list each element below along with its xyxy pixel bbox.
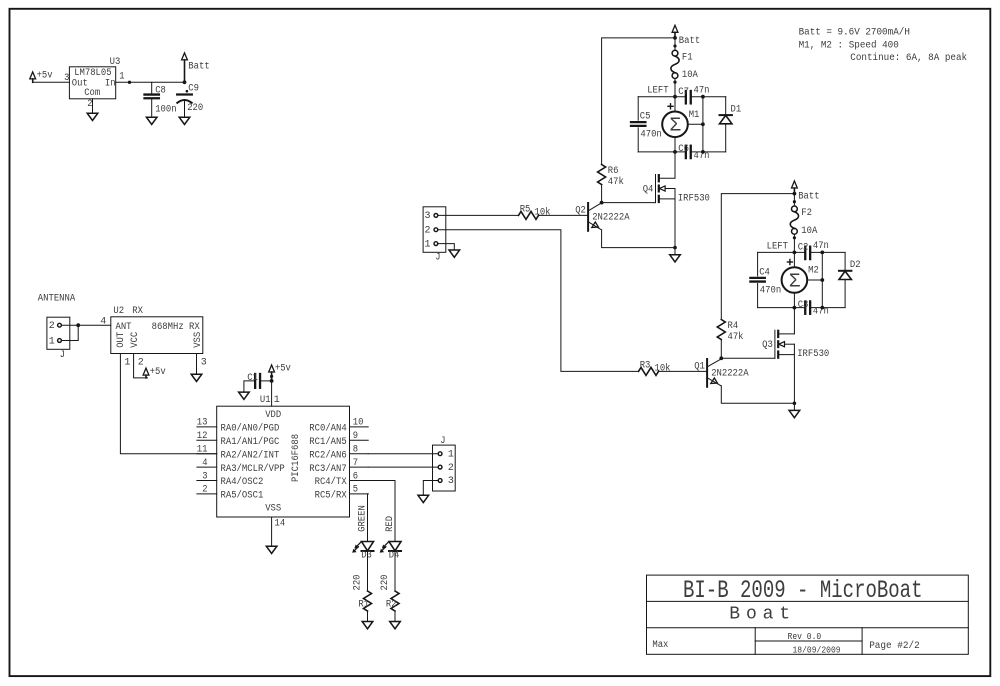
transistor Q4 IRF530 [655,175,657,203]
fuse F2 [792,206,798,212]
U1 right pin stub 5 [350,493,369,495]
capacitor C9 (electrolytic) [177,93,192,95]
junction Q2 collector node [600,201,604,205]
svg-text:Page #2/2: Page #2/2 [869,640,920,652]
svg-text:U1: U1 [260,395,271,406]
svg-text:868MHz RX: 868MHz RX [152,322,200,333]
svg-text:6: 6 [353,471,358,482]
svg-text:RC0/AN4: RC0/AN4 [309,423,346,435]
svg-text:R2: R2 [386,599,397,610]
svg-text:RC1/AN5: RC1/AN5 [309,436,346,448]
wire input J pin3 to R5 [438,214,519,216]
svg-text:Batt = 9.6V 2700mA/H: Batt = 9.6V 2700mA/H [799,27,910,39]
title block outer frame [647,575,969,654]
svg-text:1: 1 [424,239,430,250]
wire motor M2 bottom to drain [793,293,795,334]
svg-text:1: 1 [448,449,454,460]
antenna connector J box [47,317,70,349]
svg-text:D1: D1 [731,105,742,116]
wire U2 VCC to +5v [134,354,148,378]
wire C8 to ground [151,98,153,117]
svg-text:Σ: Σ [669,115,680,137]
U1 left pin stub 11 [197,453,217,455]
svg-text:ANTENNA: ANTENNA [38,293,75,304]
wire motor 1 top right [691,96,726,98]
U1 right pin stub 10 [350,426,369,428]
svg-text:+5v: +5v [275,364,291,375]
junction center tap M2 [820,278,824,282]
capacitor C7 [685,91,687,103]
junction C6 right [701,150,705,154]
title block vertical divider left [754,628,756,655]
svg-text:RA2/AN2/INT: RA2/AN2/INT [221,449,280,461]
capacitor C5 [631,121,645,123]
wire R1 to ground [367,611,369,622]
svg-text:RA3/MCLR/VPP: RA3/MCLR/VPP [221,463,285,475]
transistor Q2 2N2222A [587,203,589,231]
ground below Q4 [670,255,681,262]
junction Batt / R6 feed [673,36,677,40]
wire R3 to Q1 base [659,370,708,372]
svg-text:220: 220 [187,103,203,114]
svg-text:2: 2 [448,463,454,474]
ground below R1 [362,622,373,629]
wire U2 VSS to ground [196,354,198,375]
svg-text:BI-B 2009 - MicroBoat: BI-B 2009 - MicroBoat [683,576,923,605]
svg-text:ANT: ANT [116,322,132,333]
U1 left pin stub 2 [197,493,217,495]
wire C1 right to +5v rail [260,380,272,382]
title block divider 1 [647,600,969,602]
svg-text:220: 220 [380,575,391,591]
svg-text:J: J [60,350,65,361]
svg-text:Q2: Q2 [575,206,586,217]
svg-text:10: 10 [353,418,364,429]
ground below Q3 [789,410,800,417]
svg-text:RX: RX [132,306,143,317]
wire F1 to motor node [674,79,676,97]
svg-text:Continue: 6A, 8A peak: Continue: 6A, 8A peak [850,52,967,64]
svg-text:Batt: Batt [798,192,819,203]
ground below R2 [390,622,401,629]
svg-text:OUT: OUT [116,332,127,348]
title block vertical divider right [861,628,863,655]
transistor Q3 IRF530 [774,330,776,358]
svg-text:9: 9 [353,431,358,442]
wire U1 VSS to ground [271,517,273,546]
svg-text:GREEN: GREEN [358,505,369,532]
wire motor 2 bottom right [811,307,846,309]
svg-text:2N2222A: 2N2222A [592,213,629,224]
wire fuse node to motor M2 [793,252,795,267]
ground below C1 [239,392,250,399]
svg-text:10k: 10k [655,362,671,374]
junction at U3 In pin [128,81,131,84]
ground below U1 VSS [266,546,277,553]
svg-text:RA0/AN0/PGD: RA0/AN0/PGD [221,423,280,435]
svg-text:100n: 100n [155,104,176,115]
receiver U2 box [111,317,203,354]
svg-text:3: 3 [448,476,454,487]
diode D1 [720,114,732,116]
svg-text:RED: RED [385,516,396,532]
svg-text:2: 2 [87,99,92,110]
wire motor 2 top right [811,251,846,253]
svg-text:2N2222A: 2N2222A [711,369,748,380]
wire red LED to R2 [394,551,396,591]
svg-text:VSS: VSS [193,332,204,348]
wire Q1 collector node to Q3 gate [721,357,775,359]
wire U3 In to battery node [116,81,185,83]
pin dot above F2 [793,200,796,203]
svg-text:RC3/AN7: RC3/AN7 [309,463,346,475]
wire green LED to R1 [367,551,369,591]
U1 right pin stub 7 [350,466,369,468]
ground below output J [418,495,429,502]
wire R4 to Q1 collector [720,340,722,359]
svg-text:IRF530: IRF530 [797,349,829,360]
svg-text:RC4/TX: RC4/TX [315,476,347,488]
svg-text:VSS: VSS [265,503,281,514]
svg-text:Q1: Q1 [694,362,705,373]
junction Q1 emitter / Q3 source [793,402,797,406]
wire motor M2 to center tap [807,279,822,281]
capacitor C3 [804,301,806,313]
junction motor 2 bottom [793,306,797,310]
wire motor 2 left side upper [757,252,759,276]
wire input J pin1 to ground [438,244,455,250]
svg-text:IRF530: IRF530 [678,193,710,204]
svg-text:U2: U2 [113,306,124,317]
svg-text:3: 3 [201,357,207,368]
junction motor 1 bottom [673,150,677,154]
svg-text:Batt: Batt [679,36,700,47]
wire R2 to ground [394,611,396,622]
wire battery node down to C8 [151,82,153,94]
wire output J pin3 to ground [423,481,438,496]
svg-text:Q3: Q3 [762,340,773,351]
U1 left pin stub 4 [197,466,217,468]
svg-text:J: J [435,253,440,264]
svg-text:1: 1 [124,357,130,368]
resistor R2 [391,591,399,611]
motor M1 plus mark [668,105,673,107]
wire antenna pin2 to U2 ANT [61,324,110,326]
svg-text:M1, M2 : Speed 400: M1, M2 : Speed 400 [799,39,899,51]
U1 left pin stub 3 [197,480,217,482]
junction at battery node [183,80,187,84]
svg-text:RA5/OSC1: RA5/OSC1 [221,490,264,502]
pin dot below F1 [673,81,676,84]
ground below C8 [146,117,157,124]
wire Batt to fuse F2 [793,194,795,206]
svg-text:RA1/AN1/PGC: RA1/AN1/PGC [221,436,280,448]
junction Batt / R4 feed [793,192,797,196]
U1 right pin stub 8 [350,453,369,455]
ground below input J pin1 [449,250,460,257]
svg-text:C1: C1 [247,373,258,384]
capacitor C8 [145,93,159,95]
svg-text:RC5/RX: RC5/RX [315,490,347,502]
wire motor 2 bottom left [758,307,805,309]
power symbol Batt (motor 1) [672,25,678,32]
svg-text:2: 2 [424,225,430,236]
svg-text:1: 1 [119,71,124,82]
svg-text:VDD: VDD [265,410,281,421]
svg-text:2: 2 [138,357,144,368]
svg-text:C5: C5 [640,112,651,123]
antenna J pin 2 circle [58,323,62,327]
svg-text:5: 5 [353,485,358,496]
ground below C9 [179,117,190,124]
wire D1 cathode [725,97,727,115]
power symbol +5v (U2 VCC) [143,368,149,375]
input J pin 3 circle [434,214,438,218]
wire Q4 source to ground rail [674,189,676,255]
resistor R1 [364,591,372,611]
wire fuse node to motor [674,97,676,112]
wire Batt to fuse [674,38,676,50]
junction motor 1 top [673,95,677,99]
wire D2 cathode [844,252,846,270]
capacitor C1 [254,374,256,388]
wire +5v to U3 Out [33,81,70,83]
output J pin 1 circle [438,452,442,456]
capacitor C4 [750,277,764,279]
junction Q2 emitter / Q4 source [673,246,677,250]
wire R6 to Q2 collector [601,185,603,203]
resistor R4 [717,320,725,340]
svg-text:RA4/OSC2: RA4/OSC2 [221,476,264,488]
wire input J pin2 down to R3 [438,230,639,372]
wire motor M1 bottom to drain [674,137,676,178]
svg-text:F1: F1 [682,53,693,64]
svg-text:4: 4 [202,458,207,469]
svg-text:C3: C3 [798,300,809,311]
wire C9 to ground [184,100,186,117]
svg-text:PIC16F688: PIC16F688 [291,434,302,482]
junction Q1 collector node [719,356,723,360]
wire U3 Com to ground [92,99,94,113]
junction center tap M1 [701,122,705,126]
svg-text:10k: 10k [535,206,551,218]
svg-text:1: 1 [49,336,55,347]
resistor R3 [639,367,659,375]
svg-text:1: 1 [274,395,280,406]
svg-text:U3: U3 [110,57,121,68]
pin dot on VDD rail [270,375,273,378]
junction C7 right [701,95,705,99]
svg-text:Boat: Boat [729,604,790,624]
antenna J pin 1 circle [58,339,62,343]
svg-text:C6: C6 [678,144,689,155]
svg-text:14: 14 [275,518,286,529]
svg-text:Q4: Q4 [643,185,654,196]
svg-text:Max: Max [652,640,668,651]
svg-text:+5v: +5v [150,367,166,378]
center tap vertical M1 [702,97,704,152]
voltage regulator U3 box [69,67,115,99]
svg-text:D4: D4 [389,551,400,562]
svg-text:M2: M2 [808,266,819,277]
junction C2 right [820,251,824,255]
svg-text:Batt: Batt [188,61,209,72]
output connector J box [433,445,456,491]
wire C1 left to ground [244,381,255,392]
ground below U3 [87,113,98,120]
wire RC5 to green LED [367,494,370,541]
svg-text:LEFT: LEFT [647,86,668,97]
wire motor 1 left side lower [637,128,639,152]
LED D4 (red) [389,542,401,551]
output J pin 3 circle [438,479,442,483]
wire RC2 to connector pin 1 [368,453,438,455]
resistor R5 [519,211,539,219]
svg-text:470n: 470n [640,130,661,141]
svg-text:47k: 47k [728,331,744,343]
svg-text:F2: F2 [801,208,812,219]
motor M2 plus mark [787,261,792,263]
output J pin 2 circle [438,465,442,469]
wire Q2 emitter to ground rail [602,230,675,248]
U1 right pin stub 6 [350,480,369,482]
U1 left pin stub 12 [197,439,217,441]
pin dot below F2 [793,236,796,239]
svg-text:4: 4 [100,316,106,327]
ground below U2 VSS [191,374,202,381]
wire D2 anode [844,280,846,308]
input connector J box [423,207,446,253]
svg-text:C2: C2 [798,243,809,254]
microcontroller U1 box [217,406,350,517]
svg-text:C4: C4 [759,267,770,278]
svg-text:LEFT: LEFT [767,241,788,252]
U1 right pin stub 9 [350,439,369,441]
resistor R6 [598,165,606,185]
svg-text:13: 13 [197,418,208,429]
wire motor 2 top left [758,251,805,253]
pin dot above F1 [673,44,676,47]
svg-text:7: 7 [353,458,358,469]
power symbol Batt (motor 2) [792,181,798,188]
wire R5 to Q2 base [539,214,589,216]
svg-text:J: J [440,436,445,447]
input J pin 2 circle [434,228,438,232]
svg-text:Rev 0.0: Rev 0.0 [788,632,822,642]
svg-text:220: 220 [353,575,364,591]
wire D1 anode [725,124,727,152]
svg-text:R5: R5 [520,205,531,216]
wire motor 1 top left [638,96,685,98]
power symbol +5v (PIC VDD) [269,365,275,372]
LED D3 (green) [362,542,374,551]
svg-text:VCC: VCC [130,332,141,348]
svg-text:R6: R6 [608,166,619,177]
title block revision divider [755,640,862,642]
wire RC4 to red LED [368,481,395,542]
svg-text:47k: 47k [608,176,624,188]
U1 left pin stub 13 [197,426,217,428]
wire Batt node to R6 top [602,38,675,165]
wire motor 1 left side upper [637,97,639,121]
junction antenna pins [76,323,80,327]
svg-text:47n: 47n [694,85,710,96]
capacitor C6 [685,146,687,158]
wire RC3 to connector pin 2 [368,466,438,468]
svg-text:C7: C7 [678,87,689,98]
svg-text:470n: 470n [760,285,781,296]
svg-text:C8: C8 [155,86,166,97]
junction C3 right [820,306,824,310]
svg-text:2: 2 [49,321,55,332]
svg-text:Com: Com [84,88,100,99]
svg-text:D3: D3 [361,551,372,562]
svg-text:18/09/2009: 18/09/2009 [793,646,841,656]
wire Q3 source to ground rail [793,344,795,410]
svg-text:3: 3 [64,73,69,84]
transistor Q1 2N2222A [706,359,708,387]
capacitor C2 [804,247,806,259]
center tap vertical M2 [821,252,823,307]
power symbol Batt (above C9) [182,53,188,60]
wire motor 2 left side lower [757,284,759,308]
title block divider 2 [647,627,969,629]
svg-text:2: 2 [202,485,207,496]
svg-text:D2: D2 [850,260,861,271]
svg-text:11: 11 [197,445,208,456]
svg-text:10A: 10A [682,70,698,81]
svg-text:8: 8 [353,445,358,456]
svg-text:R3: R3 [640,361,651,372]
input J pin 1 circle [434,242,438,246]
svg-text:Σ: Σ [789,270,800,292]
wire +5v to U1 VDD [271,381,273,406]
svg-text:3: 3 [424,211,430,222]
wire F2 to motor node [793,234,795,252]
wire Q1 emitter to ground rail [721,386,794,403]
svg-text:10A: 10A [801,226,817,237]
junction motor 2 top [793,251,797,255]
svg-text:3: 3 [202,471,207,482]
motor M1 [662,112,688,138]
svg-text:R4: R4 [728,321,739,332]
fuse F1 [672,50,678,56]
wire motor M1 to center tap [688,123,703,125]
svg-text:R1: R1 [358,599,369,610]
svg-text:M1: M1 [689,110,700,121]
junction C1 / VDD rail [270,379,274,383]
svg-text:C9: C9 [188,84,199,95]
svg-text:47n: 47n [813,241,829,252]
diode D2 [839,270,851,272]
wire antenna pin1 loop [61,325,78,340]
svg-text:12: 12 [197,431,208,442]
wire U2 OUT down and to PIC RA2 [120,354,216,454]
wire motor 1 bottom left [638,151,685,153]
svg-text:RC2/AN6: RC2/AN6 [309,449,346,461]
power symbol +5v (regulator output) [30,72,36,79]
svg-text:+5v: +5v [37,71,53,82]
motor M2 [782,267,808,293]
wire Q2 collector node to Q4 gate [602,202,656,204]
wire Batt node to R4 top [721,194,794,320]
wire motor 1 bottom right [691,151,726,153]
svg-text:In: In [105,78,116,89]
